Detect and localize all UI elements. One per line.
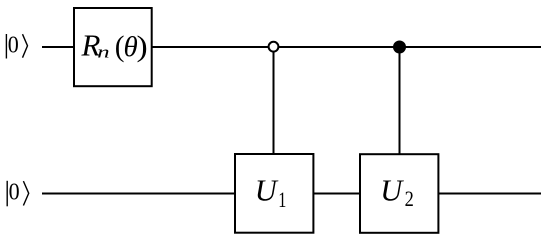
svg-text:): ) — [137, 30, 148, 62]
open-circle control (anti-control) on qubit 0 — [269, 42, 279, 52]
wire qubit1 segment between U1 and U2 — [313, 193, 361, 195]
vertical control wire from filled control to U2 — [399, 47, 401, 155]
wire qubit1 segment right of U2 — [438, 193, 541, 195]
svg-text:1: 1 — [278, 188, 286, 212]
svg-text:2: 2 — [405, 187, 414, 211]
svg-text:U: U — [255, 173, 279, 207]
ket |0> label qubit 1 — [7, 179, 29, 207]
wire qubit1 segment left of U1 — [42, 193, 236, 195]
gate box Rn(theta) — [74, 8, 152, 86]
svg-text:0: 0 — [8, 31, 19, 58]
wire qubit0 segment left of Rn box — [42, 46, 75, 48]
svg-text:0: 0 — [9, 179, 20, 206]
filled control dot on qubit 0 — [393, 41, 406, 54]
svg-text:n: n — [97, 42, 109, 61]
wire qubit0 segment right of Rn box — [151, 46, 541, 48]
gate box U2 — [360, 154, 438, 233]
label U2 — [380, 173, 414, 211]
gate box U1 — [235, 154, 313, 233]
vertical control wire from open control to U1 — [273, 47, 275, 155]
svg-text:U: U — [380, 173, 404, 207]
label U1 — [255, 173, 286, 212]
ket |0> label qubit 0 — [6, 31, 27, 58]
